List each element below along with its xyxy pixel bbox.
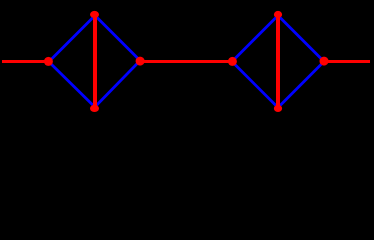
edge T1-B1 red vertical <box>93 15 97 109</box>
edge L1-T1 blue <box>49 15 96 62</box>
node R1 <box>136 57 145 66</box>
wire: middle red edge connecting the two diamonds <box>140 60 232 63</box>
edge L2-T2 blue <box>232 15 279 62</box>
node L1 <box>44 57 53 66</box>
node T2 <box>274 11 282 18</box>
edge T1-R1 blue <box>94 15 141 62</box>
edge B2-L2 blue <box>232 61 279 108</box>
edge R1-B1 blue <box>94 61 140 108</box>
wire: right external red edge <box>324 60 370 63</box>
node L2 <box>228 57 237 66</box>
node B2 <box>274 105 282 112</box>
edge B1-L1 blue <box>48 61 96 108</box>
node R2 <box>320 57 329 66</box>
node T1 <box>90 11 99 18</box>
wire: left external red edge <box>2 60 48 63</box>
edge R2-B2 blue <box>277 61 324 108</box>
edge T2-B2 red vertical <box>276 15 280 109</box>
edge T2-R2 blue <box>277 15 324 62</box>
node B1 <box>90 105 99 112</box>
